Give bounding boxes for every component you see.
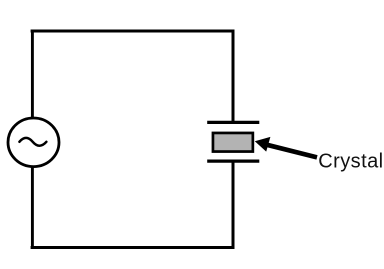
wire: top horizontal	[31, 30, 235, 33]
crystal Y1: top plate	[207, 121, 259, 124]
svg-text:Crystal: Crystal	[318, 151, 383, 173]
wire: left upper vertical	[31, 30, 34, 119]
crystal Y1: bottom plate	[207, 159, 259, 162]
wire: right lower vertical	[232, 162, 235, 249]
wire: bottom horizontal	[31, 246, 235, 249]
callout arrow head	[255, 137, 271, 152]
AC source V1	[8, 118, 59, 167]
wire: right upper vertical	[232, 30, 235, 122]
crystal Y1: body (gray slab)	[213, 133, 253, 152]
sine symbol of AC source	[19, 138, 46, 146]
wire: left lower vertical	[31, 166, 34, 249]
callout arrow shaft	[267, 145, 318, 158]
